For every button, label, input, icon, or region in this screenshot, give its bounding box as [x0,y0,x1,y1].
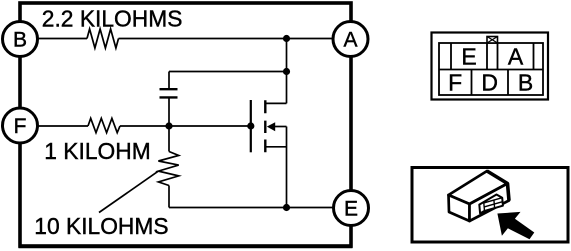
junction dot bottom rail [283,204,290,211]
module top face [449,171,508,204]
connector pinout inner box [439,43,543,95]
transistor Q source stub [265,146,286,148]
svg-text:B: B [518,69,533,95]
wire capacitor bottom lead [168,98,170,126]
main schematic border box [20,3,351,246]
terminal E [334,191,369,226]
transistor Q (MOSFET) gate bar [250,100,252,152]
module connector silhouette [479,195,503,214]
pinout key box [487,37,498,44]
module connector grid lines [484,198,503,211]
wire top rail B to A [38,38,334,40]
svg-text:F: F [14,115,27,138]
pinout key cross [487,37,498,44]
terminal F [3,108,38,143]
module right face [470,184,510,222]
transistor Q drain stub [265,102,286,104]
transistor Q channel segments [264,100,266,152]
svg-text:D: D [481,69,498,95]
connector pinout outer box [432,33,549,100]
svg-text:E: E [344,198,358,221]
svg-text:E: E [461,44,476,70]
pinout row divider [439,69,543,71]
pinout top row cell dividers [451,43,534,70]
terminal B [3,22,38,57]
junction dot capacitor top [283,68,290,75]
svg-text:A: A [508,44,524,70]
svg-text:B: B [13,29,27,52]
resistor 2.2 KILOHMS [87,29,119,48]
wire gate rail F to gate [38,125,251,127]
wire drain vertical [286,39,288,104]
wire source vertical [286,127,288,208]
capacitor plates [160,89,178,97]
module top-right heavy edge [487,171,509,201]
module front face [449,195,470,221]
resistor 1 KILOHM [88,118,120,132]
wire bottom rail to E [169,207,334,209]
junction dot gate rail capacitor [165,122,172,129]
wire capacitor top rail [169,71,287,73]
junction dot gate bar [247,122,254,129]
junction dot top rail [283,35,290,42]
transistor Q body wire [275,126,287,128]
wire 10k top lead [168,126,170,152]
svg-text:1 KILOHM: 1 KILOHM [44,138,150,164]
transistor Q body arrow [267,122,275,131]
wire 10k bottom lead [168,186,170,208]
svg-text:10 KILOHMS: 10 KILOHMS [34,213,168,239]
wire capacitor top lead [168,72,170,89]
svg-text:A: A [343,29,357,52]
svg-text:2.2 KILOHMS: 2.2 KILOHMS [42,6,183,32]
main box bottom border extra weight [19,247,353,249]
resistor 10 KILOHMS (vertical) [158,152,178,186]
svg-text:F: F [448,69,462,95]
pinout bottom row cell dividers [472,70,509,96]
terminal A [333,22,368,57]
component icon box [412,168,568,243]
pointer arrow [497,212,534,239]
leader line to 10 KILOHMS label [99,171,158,212]
